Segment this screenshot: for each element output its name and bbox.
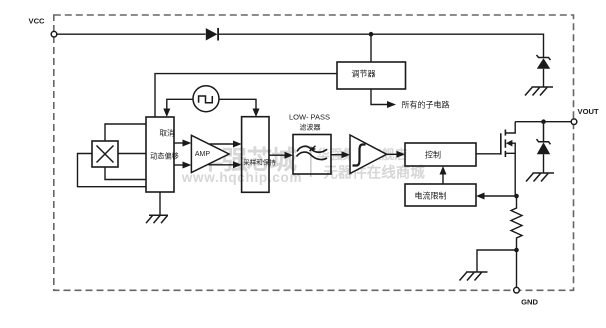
ground (zener Z1) — [525, 87, 553, 96]
schmitt trigger — [350, 135, 387, 174]
svg-text:VOUT: VOUT — [578, 107, 599, 116]
junction dot (resistor bottom) — [514, 248, 519, 253]
GND terminal — [514, 287, 539, 306]
svg-text:采样和保持: 采样和保持 — [243, 158, 276, 167]
op-amp AMP — [191, 135, 229, 172]
chip boundary (dashed) — [54, 15, 574, 290]
wire sense node to current-limit (arrow) — [476, 193, 517, 200]
arrow AMP to sample-hold (lower) — [209, 161, 242, 168]
svg-text:动态偏移: 动态偏移 — [150, 152, 179, 161]
ground (left branch) — [460, 272, 488, 281]
svg-text:滤波器: 滤波器 — [300, 123, 321, 132]
arrow offset block to AMP (lower) — [174, 162, 191, 169]
wire block to ground — [159, 192, 161, 215]
oscillator OSC — [193, 86, 219, 112]
junction dot (sense node) — [514, 194, 519, 199]
wire hall top to block — [105, 124, 146, 141]
MOSFET Q1 — [500, 122, 515, 196]
wire OSC to sample-hold block — [219, 99, 260, 117]
arrow AMP to sample-hold (upper) — [210, 141, 242, 148]
svg-text:VCC: VCC — [29, 17, 46, 26]
wire regulator to offset-cancel block — [155, 74, 337, 117]
arrow schmitt to control — [387, 151, 405, 158]
VOUT terminal — [571, 107, 599, 124]
wire junction to regulator — [370, 34, 372, 62]
wire to ground (left branch) — [477, 250, 517, 272]
svg-text:取消: 取消 — [160, 128, 175, 138]
wire resistor to GND terminal — [516, 250, 518, 287]
wire hall left loop to block — [78, 154, 147, 187]
sample and hold block 采样和保持 — [242, 117, 277, 193]
ground (zener Z2) — [526, 173, 554, 182]
wire OSC to offset-cancel block — [163, 99, 193, 117]
VCC terminal — [29, 17, 57, 38]
svg-text:GND: GND — [521, 298, 538, 307]
wire drain to VOUT — [515, 121, 571, 123]
junction dot (VOUT / zener Z2) — [541, 119, 546, 124]
zener Z1 — [537, 55, 551, 87]
junction dot (VCC rail / regulator) — [369, 32, 374, 37]
arrow sample-hold to low-pass — [269, 152, 293, 159]
arrow low-pass to schmitt — [331, 151, 350, 158]
control block 控制 — [405, 143, 476, 166]
arrow offset block to AMP (upper) — [174, 140, 191, 147]
Hall element (multiplier X) — [92, 141, 118, 167]
wire VCC rail — [57, 34, 544, 57]
zener Z2 — [537, 124, 551, 173]
resistor R1 — [511, 196, 522, 250]
arrow to all sub-circuits 所有的子电路 — [371, 89, 450, 110]
diode D1 — [206, 28, 219, 41]
wire hall right to block — [118, 153, 146, 155]
arrow current-limit to control — [440, 166, 447, 184]
low-pass filter block — [289, 113, 331, 175]
dynamic offset cancel block 取消/动态偏移 — [146, 117, 179, 192]
svg-text:所有的子电路: 所有的子电路 — [402, 100, 450, 110]
current limit block 电流限制 — [405, 184, 476, 206]
wire hall bottom to block — [105, 167, 146, 180]
ground (offset block) — [146, 215, 168, 223]
wire control to MOSFET gate — [476, 153, 500, 155]
svg-text:控制: 控制 — [425, 150, 441, 160]
svg-text:AMP: AMP — [195, 151, 211, 158]
svg-text:LOW- PASS: LOW- PASS — [289, 113, 330, 122]
regulator block 调节器 — [337, 62, 406, 89]
svg-text:电流限制: 电流限制 — [415, 191, 447, 201]
svg-text:调节器: 调节器 — [352, 70, 376, 79]
